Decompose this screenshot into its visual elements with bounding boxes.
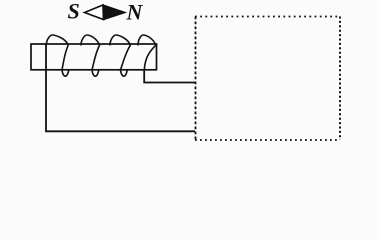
dotted box top edge: [195, 16, 340, 18]
wire: left coil lead and bottom run to box: [46, 45, 195, 132]
dotted box left edge: [195, 17, 197, 141]
coil winding L1: [46, 35, 156, 76]
svg-text:S: S: [68, 0, 80, 24]
compass needle left half (white): [85, 5, 104, 20]
svg-text:N: N: [126, 0, 144, 25]
dotted box bottom edge: [195, 139, 340, 141]
compass needle right half (black, points N): [103, 5, 125, 20]
dotted box right edge: [339, 17, 341, 141]
wire: right lead (step) from coil to box: [144, 70, 195, 83]
coil core rectangle: [31, 44, 157, 70]
